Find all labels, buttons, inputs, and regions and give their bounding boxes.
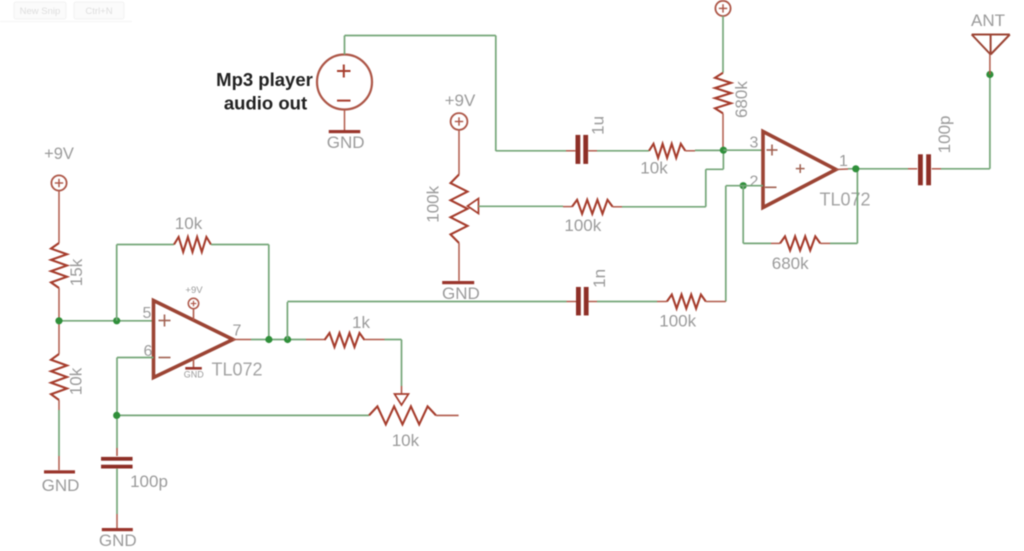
svg-text:3: 3 bbox=[750, 135, 759, 152]
svg-text:TL072: TL072 bbox=[211, 360, 262, 380]
svg-text:100k: 100k bbox=[564, 216, 601, 235]
svg-text:audio out: audio out bbox=[224, 93, 307, 114]
svg-text:GND: GND bbox=[99, 531, 137, 550]
svg-text:100p: 100p bbox=[130, 472, 168, 491]
svg-text:+9V: +9V bbox=[44, 145, 74, 163]
svg-text:GND: GND bbox=[42, 476, 80, 495]
svg-text:10k: 10k bbox=[66, 367, 85, 395]
svg-text:+9V: +9V bbox=[185, 285, 203, 296]
svg-text:GND: GND bbox=[184, 370, 205, 380]
svg-text:+9V: +9V bbox=[445, 91, 476, 110]
svg-text:1k: 1k bbox=[352, 313, 370, 332]
svg-text:100p: 100p bbox=[935, 115, 954, 153]
svg-text:1: 1 bbox=[839, 153, 848, 170]
svg-text:1u: 1u bbox=[588, 116, 607, 135]
svg-text:15k: 15k bbox=[67, 258, 86, 286]
svg-text:100k: 100k bbox=[423, 185, 442, 222]
svg-text:10k: 10k bbox=[392, 431, 420, 450]
svg-text:680k: 680k bbox=[772, 254, 809, 273]
svg-text:ANT: ANT bbox=[971, 11, 1005, 30]
svg-text:680k: 680k bbox=[732, 81, 751, 118]
svg-text:100k: 100k bbox=[659, 312, 696, 331]
svg-text:TL072: TL072 bbox=[819, 190, 870, 210]
svg-text:10k: 10k bbox=[175, 214, 203, 233]
svg-text:2: 2 bbox=[750, 174, 759, 191]
svg-text:GND: GND bbox=[327, 133, 365, 152]
svg-text:1n: 1n bbox=[590, 269, 609, 288]
svg-text:Mp3 player: Mp3 player bbox=[216, 69, 313, 90]
svg-text:10k: 10k bbox=[640, 159, 668, 178]
svg-text:Ctrl+N: Ctrl+N bbox=[85, 6, 112, 17]
svg-text:GND: GND bbox=[442, 284, 480, 303]
svg-text:5: 5 bbox=[143, 305, 152, 322]
svg-text:New Snip: New Snip bbox=[20, 6, 61, 17]
svg-text:7: 7 bbox=[233, 323, 242, 340]
